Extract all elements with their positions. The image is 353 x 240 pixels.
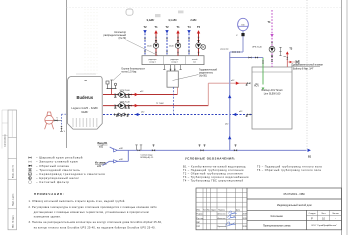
- svg-text:2019: 2019: [243, 226, 247, 228]
- svg-text:расш.бак: расш.бак: [220, 49, 228, 51]
- pipe T1 boiler circuit 1 (supply to separator): [103, 87, 178, 94]
- cold water feed to tank: [230, 56, 263, 58]
- tank return valve: [246, 113, 251, 116]
- svg-text:дистанционно с помощью комнатн: дистанционно с помощью комнатных термост…: [34, 211, 149, 214]
- svg-text:ø32: ø32: [140, 91, 143, 93]
- svg-text:Т6 – Обратный трубопровод т: Т6 – Обратный трубопровод теплого пола: [257, 169, 321, 172]
- boiler drain branch (dashed): [60, 114, 67, 133]
- B1 filter and valve pair: [199, 145, 206, 152]
- svg-text:Корольков: Корольков: [218, 226, 227, 228]
- legend pipe designations column 2: [257, 166, 322, 173]
- svg-text:Принципиальная схема: Принципиальная схема: [263, 224, 291, 227]
- legend symbols column: [28, 156, 105, 185]
- title block texts left: [197, 208, 247, 228]
- legend pipe designations column 1: [183, 166, 249, 183]
- title block small grid: [196, 188, 342, 230]
- svg-text:м: м: [29, 174, 31, 176]
- svg-text:Взам. инв. №: Взам. инв. №: [12, 164, 15, 178]
- boiler burner hatch: [73, 118, 97, 127]
- riser pair 3 return T4: [187, 25, 191, 56]
- tag box 2: [178, 11, 184, 14]
- cold water riser B1: [225, 52, 231, 150]
- expansion tank E1 (red): [45, 112, 54, 129]
- svg-text:9,1кВт: 9,1кВт: [147, 19, 155, 22]
- left frame column box: [2, 110, 17, 230]
- svg-text:Line SLEW 160: Line SLEW 160: [264, 93, 281, 96]
- riser pair 1 supply T1 with pump: [147, 25, 159, 56]
- svg-text:радиаторы: радиаторы: [148, 59, 157, 61]
- tank safety valve label: [292, 64, 324, 71]
- svg-text:25-60: 25-60: [169, 46, 174, 48]
- svg-text:Рук. отд.: Рук. отд.: [197, 218, 205, 220]
- svg-text:ПРИМЕЧАНИЯ:: ПРИМЕЧАНИЯ:: [34, 192, 65, 196]
- svg-text:Согласовано: Согласовано: [5, 134, 7, 147]
- riser pair 3 supply T5 with mixing pump: [196, 25, 202, 56]
- sheet right frame border: [341, 0, 343, 235]
- tag box 1: [155, 14, 161, 17]
- svg-text:ø32: ø32: [99, 146, 104, 149]
- svg-text:Дата: Дата: [236, 209, 240, 211]
- axis bubble: [126, 9, 133, 15]
- hydraulic separator Ур-50: [163, 65, 182, 115]
- circuit 2 fittings: [114, 101, 131, 108]
- svg-text:Индивидуальный жилой дом: Индивидуальный жилой дом: [277, 203, 312, 207]
- B1 garden tap stubs: [135, 145, 142, 151]
- svg-text:радиаторы: радиаторы: [170, 59, 179, 61]
- load label 2kW: [190, 19, 197, 22]
- svg-text:Котельная: Котельная: [271, 215, 284, 218]
- manifold label: [104, 31, 158, 56]
- pipe T3 hot water outlet: [284, 47, 293, 67]
- tank safety valve: [287, 60, 299, 64]
- svg-text:2019: 2019: [243, 214, 247, 216]
- svg-text:Алексеев: Алексеев: [218, 213, 226, 216]
- load label 9,1kW: [147, 19, 155, 22]
- title block frame: [196, 188, 342, 230]
- svg-text:Стадия: Стадия: [309, 213, 316, 215]
- svg-text:(Ук-70): (Ук-70): [118, 37, 126, 40]
- svg-text:Buderus: Buderus: [76, 95, 93, 100]
- svg-text:Кол: Кол: [203, 209, 206, 211]
- svg-text:тип: тип: [84, 80, 87, 82]
- svg-text:4,1 кВт: 4,1 кВт: [168, 19, 177, 22]
- svg-text:Изм.: Изм.: [197, 209, 201, 211]
- B1 outlet arrow: [308, 149, 312, 159]
- B1 valve at riser: [234, 145, 237, 152]
- pump N2 on circuit 2: [119, 103, 125, 109]
- well inlet label: [95, 162, 107, 168]
- pump N1 on circuit 1: [119, 92, 125, 98]
- svg-text:2 кВт: 2 кВт: [190, 19, 197, 22]
- circuit 1 fittings: [114, 90, 143, 97]
- svg-text:2019: 2019: [243, 218, 247, 220]
- boiler safety group: [106, 80, 117, 95]
- svg-text:Т1 Т-80С: Т1 Т-80С: [156, 103, 165, 105]
- boiler-room wall (section line): [66, 0, 68, 148]
- svg-text:Т4 – Трубопровод ГВС циркул: Т4 – Трубопровод ГВС циркуляционный: [183, 180, 244, 183]
- boiler K1 Buderus Logano body: [68, 74, 103, 129]
- exterior wall axis (dotted): [306, 0, 308, 150]
- DHW coil inlet valve: [246, 82, 251, 85]
- svg-text:Подп. и дата: Подп. и дата: [13, 193, 15, 206]
- expansion vessel V1 (sanitary): [236, 18, 248, 52]
- svg-text:Подпись: Подпись: [218, 209, 225, 211]
- svg-text:УСЛОВНЫЕ ОБОЗНАЧЕНИЯ:: УСЛОВНЫЕ ОБОЗНАЧЕНИЯ:: [185, 156, 236, 160]
- svg-text:2. Регулировка температуры в: 2. Регулировка температуры в контурах от…: [29, 206, 158, 209]
- DHW tank Boiler ACV Smart: [252, 67, 292, 129]
- riser pair 2 supply T1 with pump: [169, 25, 181, 56]
- notes title: [34, 192, 65, 196]
- svg-text:на контур теплого пола Grundfo: на контур теплого пола Grundfos UPS 25-4…: [34, 226, 156, 229]
- svg-text:3. Насосы на распределительн: 3. Насосы на распределительном коллектор…: [29, 221, 163, 224]
- flow arrow to DHW coil: [236, 82, 239, 85]
- svg-text:помещении здания.: помещении здания.: [34, 216, 61, 219]
- svg-text:ООО "СтройПрофМонтаж": ООО "СтройПрофМонтаж": [311, 224, 337, 227]
- svg-text:ø32: ø32: [225, 124, 228, 126]
- return flow arrow: [135, 111, 144, 116]
- svg-text:ø32: ø32: [141, 111, 144, 113]
- B1 main shutoff valve: [152, 145, 155, 152]
- pipe T2 common return (dashed): [103, 114, 252, 116]
- distribution manifold: [142, 56, 204, 65]
- safety group label: [113, 68, 146, 81]
- svg-text:Инв. № подл.: Инв. № подл.: [12, 215, 15, 228]
- svg-text:контур 2: контур 2: [171, 62, 177, 64]
- inlet branch 1: [110, 147, 124, 152]
- svg-text:Бойлер ACV Smart: Бойлер ACV Smart: [262, 89, 283, 92]
- svg-text:контур 1: контур 1: [149, 62, 155, 64]
- water meter label: [141, 155, 154, 159]
- separator label: [173, 69, 218, 81]
- svg-text:Бойлер 8 бар. 3/4": Бойлер 8 бар. 3/4": [293, 68, 314, 71]
- svg-text:ø32: ø32: [231, 80, 234, 82]
- svg-text:Листов: Листов: [332, 213, 339, 215]
- svg-text:Лист: Лист: [321, 213, 325, 215]
- riser pair 1 return T2: [143, 25, 147, 56]
- inlet branch 2: [103, 150, 129, 165]
- vessel connecting pipe: [220, 49, 243, 53]
- svg-text:Logano G125 - 32кВт: Logano G125 - 32кВт: [71, 107, 99, 110]
- svg-text:18л: 18л: [241, 24, 244, 26]
- cold feed dip tube (green): [255, 58, 264, 91]
- svg-text:32кВт: 32кВт: [81, 111, 89, 114]
- signatures: [226, 211, 237, 226]
- sheet right page edge: [346, 0, 348, 235]
- svg-text:ø32: ø32: [239, 111, 242, 113]
- title block texts right: [263, 192, 339, 227]
- svg-text:05.07/2019.- ОВК: 05.07/2019.- ОВК: [284, 192, 306, 196]
- svg-text:ø32: ø32: [255, 84, 258, 86]
- svg-text:(Ур-50): (Ур-50): [199, 75, 207, 78]
- svg-text:Алексеев: Алексеев: [218, 217, 226, 220]
- mixing valve actuator: [201, 45, 206, 50]
- svg-text:UPS 25-40: UPS 25-40: [252, 47, 263, 49]
- chimney duct (faint dotted): [85, 9, 97, 74]
- ceiling line (dotted): [67, 7, 342, 9]
- svg-text:1. Обвязку котельной выполни: 1. Обвязку котельной выполнить открыто в…: [29, 200, 126, 203]
- water inlet label Vvod B1: [98, 142, 109, 148]
- svg-text:Предохранительный клапан: Предохранительный клапан: [292, 64, 324, 67]
- svg-text:ВСКМ(сгВ) -15: ВСКМ(сгВ) -15: [141, 157, 154, 159]
- flow arrow circuit 2: [135, 104, 138, 107]
- flow arrow circuit 1: [135, 93, 138, 96]
- svg-text:№док: №док: [211, 208, 216, 211]
- svg-text:Разраб.: Разраб.: [197, 214, 204, 216]
- svg-text:25-60: 25-60: [147, 46, 152, 48]
- return fittings: [114, 113, 128, 117]
- svg-text:– Сетчатый фильтр: – Сетчатый фильтр: [36, 180, 69, 184]
- riser pair 2 return T2: [165, 25, 169, 56]
- load label 4,1kW: [168, 19, 177, 22]
- svg-text:ø32: ø32: [97, 165, 102, 168]
- pipe T4 DHW recirculation (magenta): [252, 10, 274, 67]
- pump N4 recirculation: [269, 46, 275, 52]
- svg-text:котла 1,5 бар.: котла 1,5 бар.: [122, 71, 138, 74]
- notes text: [29, 200, 163, 229]
- svg-text:пол: пол: [193, 62, 196, 64]
- legend title: [185, 156, 236, 160]
- svg-text:Лис: Лис: [207, 209, 210, 211]
- pipe T1 boiler circuit 2 (supply to DHW tank): [103, 80, 247, 106]
- expansion tank connection union: [53, 118, 61, 122]
- fittings column near T3: [279, 47, 281, 56]
- cold water main B1: [116, 149, 307, 151]
- return flow arrow at tank: [233, 111, 242, 116]
